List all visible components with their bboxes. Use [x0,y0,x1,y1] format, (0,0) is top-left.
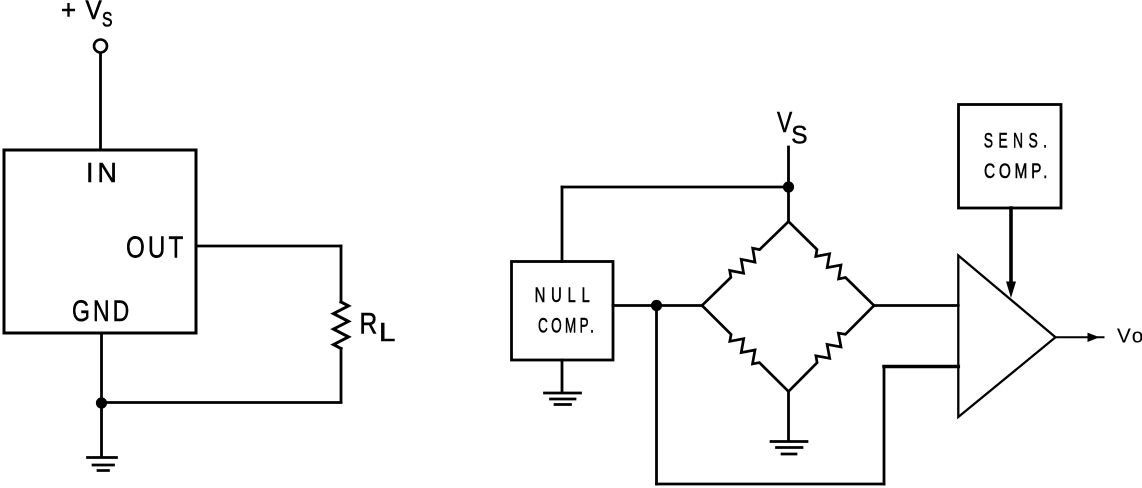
svg-text:Vo: Vo [1117,326,1142,348]
svg-text:R: R [360,308,378,341]
svg-text:SENS.: SENS. [984,130,1053,153]
svg-text:COMP.: COMP. [984,160,1051,183]
svg-text:OUT: OUT [126,230,186,265]
svg-text:+: + [61,0,76,25]
svg-text:S: S [791,122,807,150]
svg-text:IN: IN [86,157,121,188]
svg-text:S: S [102,9,113,32]
svg-text:NULL: NULL [535,284,596,307]
svg-text:COMP.: COMP. [538,315,597,338]
svg-text:GND: GND [72,295,132,328]
svg-text:L: L [379,317,395,347]
svg-text:V: V [86,0,102,25]
